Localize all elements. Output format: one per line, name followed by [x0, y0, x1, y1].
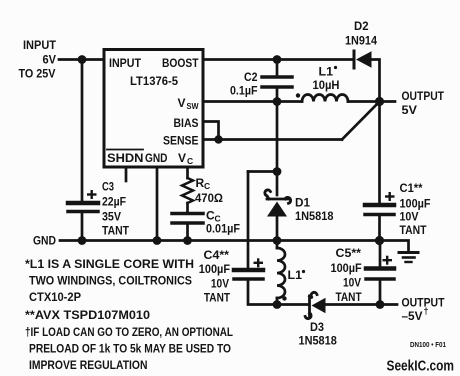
svg-text:C3: C3 — [102, 180, 114, 194]
svg-text:GND: GND — [33, 234, 56, 248]
diode D1 label — [295, 196, 334, 224]
diode D3 triangle — [312, 298, 326, 313]
wire SENSE pin — [203, 138, 342, 141]
SHDN overline — [107, 149, 143, 151]
junction C3/GND — [78, 236, 87, 245]
svg-text:SeekIC.com: SeekIC.com — [387, 359, 455, 375]
svg-text:TANT: TANT — [204, 291, 231, 305]
svg-text:C2: C2 — [244, 70, 258, 84]
wire down to C4 top — [247, 172, 250, 271]
wire L1a to output node — [348, 100, 380, 103]
wire C2 top stub — [276, 60, 279, 78]
svg-text:10V: 10V — [343, 276, 361, 290]
node label OUTPUT -5V — [402, 296, 446, 324]
svg-text:BOOST: BOOST — [162, 56, 199, 70]
wire D2 anode to corner and down to output node — [372, 60, 380, 102]
asterisk dot of L1b label — [302, 270, 305, 273]
capacitor C4 value label — [199, 248, 231, 305]
junction Vsw/C2 — [273, 97, 282, 106]
junction C5/-5V out — [376, 300, 385, 309]
asterisk dot of L1a label — [334, 66, 337, 69]
capacitor C1 plates — [365, 203, 394, 208]
wire C1 bottom to GND rail — [378, 215, 381, 242]
svg-text:SENSE: SENSE — [163, 134, 199, 148]
wire -5V node to OUTPUT — [380, 303, 397, 306]
diode D1 schottky cathode bar — [265, 190, 291, 203]
wire BIAS pin — [203, 122, 219, 140]
op-amp U1 LT1376-5 box — [104, 50, 203, 168]
capacitor C4 plates — [234, 268, 263, 273]
wire Vsw pin to L1a — [203, 100, 302, 103]
inductor L1a winding — [302, 95, 348, 102]
capacitor Cc label — [206, 209, 240, 236]
svg-text:TANT: TANT — [336, 290, 363, 304]
footnote L1 single core — [25, 257, 233, 372]
svg-text:DN100 • F01: DN100 • F01 — [410, 342, 446, 349]
wire C4 bottom to -5V rail — [248, 279, 309, 305]
node label OUTPUT 5V — [402, 89, 445, 117]
svg-text:INPUT: INPUT — [23, 38, 57, 52]
svg-text:22µF: 22µF — [102, 195, 126, 209]
wire SHDN open stub — [125, 167, 128, 181]
svg-text:470Ω: 470Ω — [195, 191, 223, 205]
junction GND pin — [153, 236, 162, 245]
wire diagonal SENSE to output node — [342, 102, 380, 140]
svg-text:C4**: C4** — [204, 248, 230, 262]
wire C3 bottom to GND rail — [81, 212, 84, 241]
capacitor C1 value label — [400, 181, 431, 237]
svg-text:1N5818: 1N5818 — [299, 334, 338, 348]
svg-text:BIAS: BIAS — [174, 116, 199, 130]
junction D1/L1b/GND — [273, 236, 282, 245]
svg-text:10µH: 10µH — [313, 78, 340, 92]
svg-text:SW: SW — [187, 101, 200, 111]
capacitor Cc plates — [172, 212, 203, 216]
svg-text:V: V — [178, 96, 186, 110]
capacitor C3 plates — [68, 201, 98, 206]
ground symbol — [399, 251, 418, 254]
wire input to IC — [59, 58, 104, 61]
wire GND rail — [60, 239, 380, 242]
wire node A horizontal to C4 — [248, 170, 277, 173]
diode D1 triangle — [267, 202, 287, 217]
wire Vsw node down to D1 — [276, 102, 279, 196]
wire C5 top stub — [379, 241, 382, 269]
diode D3 label — [299, 320, 338, 348]
svg-text:L1: L1 — [319, 65, 334, 79]
svg-text:C: C — [187, 156, 193, 166]
junction Cc/GND — [183, 236, 192, 245]
capacitor C2 plates — [262, 75, 292, 79]
capacitor C2 value label — [230, 70, 258, 98]
wire L1b bottom stub — [276, 298, 279, 305]
svg-text:*L1 IS A SINGLE CORE WITH: *L1 IS A SINGLE CORE WITH — [25, 257, 194, 271]
IC pin labels — [107, 56, 199, 166]
C4 plus sign — [254, 258, 264, 267]
svg-text:IMPROVE REGULATION: IMPROVE REGULATION — [29, 358, 148, 372]
junction input node — [78, 55, 87, 64]
svg-text:0.01µF: 0.01µF — [206, 222, 240, 236]
svg-text:D2: D2 — [354, 19, 369, 33]
svg-text:V: V — [178, 151, 186, 165]
diode D2 cathode bar — [353, 51, 356, 68]
svg-text:–5V: –5V — [402, 309, 423, 323]
polarity dot L1a — [296, 93, 300, 97]
wire output node to OUTPUT 5V — [380, 100, 396, 103]
svg-text:100µF: 100µF — [199, 262, 230, 276]
svg-text:TANT: TANT — [102, 224, 130, 238]
C5 plus sign — [383, 256, 393, 265]
svg-text:SHDN: SHDN — [107, 151, 144, 165]
svg-text:†IF LOAD CAN GO TO ZERO, AN OP: †IF LOAD CAN GO TO ZERO, AN OPTIONAL — [25, 325, 233, 339]
wire Rc to Cc — [186, 203, 189, 213]
C3 plus sign — [87, 190, 97, 199]
svg-text:PRELOAD OF 1k TO 5k MAY BE USE: PRELOAD OF 1k TO 5k MAY BE USED TO — [29, 342, 231, 356]
junction C1/GND — [375, 236, 384, 245]
junction SENSE/BIAS — [214, 135, 222, 143]
capacitor C5 plates — [366, 266, 394, 271]
svg-text:**AVX TSPD107M010: **AVX TSPD107M010 — [25, 308, 150, 322]
resistor R_C zigzag — [182, 178, 193, 203]
svg-text:D3: D3 — [310, 320, 324, 334]
wire GND pin down — [156, 167, 159, 241]
svg-text:LT1376-5: LT1376-5 — [130, 74, 178, 88]
svg-text:6V: 6V — [43, 53, 57, 67]
svg-text:5V: 5V — [402, 103, 418, 117]
svg-text:35V: 35V — [102, 210, 121, 224]
wire L1b top stub — [276, 241, 279, 249]
svg-text:L1: L1 — [288, 268, 303, 282]
svg-text:1N914: 1N914 — [345, 34, 377, 48]
wire GND rail to ground symbol — [380, 241, 409, 253]
svg-text:TWO WINDINGS, COILTRONICS: TWO WINDINGS, COILTRONICS — [29, 274, 192, 288]
svg-text:TANT: TANT — [400, 223, 428, 237]
polarity dot L1b — [282, 296, 286, 300]
svg-text:10V: 10V — [400, 210, 419, 224]
svg-text:†: † — [424, 306, 429, 316]
svg-text:C: C — [204, 181, 210, 191]
svg-text:0.1µF: 0.1µF — [230, 84, 258, 98]
svg-text:C5**: C5** — [336, 246, 362, 260]
capacitor C3 value label — [102, 180, 130, 238]
wire Vc pin to Rc — [186, 167, 189, 178]
capacitor C5 value label — [331, 246, 363, 304]
wire C2 bottom stub — [276, 87, 279, 102]
resistor Rc label — [195, 176, 223, 205]
svg-text:100µF: 100µF — [331, 261, 362, 275]
wire C5 bottom stub — [379, 279, 382, 305]
svg-text:D1: D1 — [295, 196, 310, 210]
svg-text:100µF: 100µF — [400, 197, 431, 211]
wire D3 anode to C5 bottom node — [326, 303, 381, 306]
svg-text:OUTPUT: OUTPUT — [402, 89, 445, 103]
inductor L1b winding — [277, 248, 285, 298]
svg-text:CTX10-2P: CTX10-2P — [29, 290, 81, 304]
wire D1 anode to GND rail — [276, 217, 279, 242]
junction output 5V node — [375, 97, 384, 106]
junction L1b/D3 — [273, 300, 282, 309]
junction BOOST/C2 — [273, 55, 282, 64]
svg-text:C1**: C1** — [400, 181, 423, 195]
diode D2 label — [345, 19, 377, 48]
svg-text:TO 25V: TO 25V — [19, 67, 56, 81]
svg-text:10V: 10V — [211, 277, 229, 291]
svg-text:GND: GND — [145, 151, 168, 165]
wire Cc to GND rail — [186, 223, 189, 241]
wire output node down to C1 — [378, 102, 381, 206]
wire input rail down to C3 — [81, 60, 84, 202]
wire BOOST pin to D2 — [203, 58, 354, 61]
C1 plus sign — [385, 192, 395, 201]
svg-text:INPUT: INPUT — [109, 56, 142, 70]
diode D2 triangle — [356, 51, 372, 68]
node label INPUT 6V TO 25V — [19, 38, 57, 81]
junction node A (Vsw/C4/D1) — [273, 167, 282, 176]
diode D3 schottky cathode bar — [305, 292, 317, 318]
svg-text:1N5818: 1N5818 — [295, 209, 334, 223]
inductor L1a label — [313, 65, 340, 93]
